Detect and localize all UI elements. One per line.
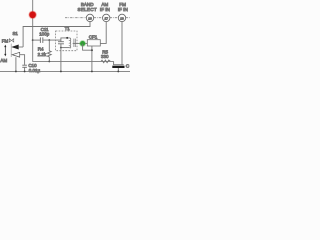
resistor R4 (vertical) (47, 40, 51, 61)
node A (highlighted red test point on rail) (28, 11, 37, 20)
node: T1 top junction (66, 37, 68, 39)
ground rail (0, 70, 130, 72)
capacitor C11 (32, 39, 34, 41)
capacitor C10 (22, 64, 27, 66)
wire: pin16 lead down and across to switch (crosses rail, no junction) (23, 22, 90, 47)
capacitor C (bottom right) (113, 64, 124, 66)
svg-text:0.01µ: 0.01µ (29, 68, 41, 73)
wire: T1 to ground rail (60, 48, 62, 72)
T1 internal bottom wire (61, 47, 70, 49)
wire: green node branch down to CF1 ground pin (83, 44, 92, 51)
IC boundary dash-dot line (65, 17, 130, 19)
T1 core lines (73, 39, 75, 47)
wire: T1 secondary out to CF1 (73, 42, 88, 44)
wire: capacitor C to ground rail (117, 68, 119, 71)
switch S1 FM contact (selected, filled arrow) (11, 45, 18, 50)
pin 16 circle (86, 14, 93, 21)
T1 internal tuning capacitor (58, 41, 64, 43)
svg-text:330: 330 (101, 54, 109, 59)
svg-text:18: 18 (120, 16, 124, 20)
wire: pin 18 lead down to capacitor C (121, 21, 123, 64)
wire: W1 elbow down to capacitor C (113, 61, 115, 64)
pin 17 circle (103, 14, 110, 21)
svg-text:C: C (126, 64, 130, 70)
svg-text:R4: R4 (38, 47, 44, 52)
T1 primary coil (69, 38, 72, 48)
wire: CF1 ground pin to rail (crosses W1) (91, 50, 93, 71)
transformer T1 dashed enclosure (56, 31, 77, 51)
node: junction C11/R4 (48, 39, 50, 41)
svg-text:AM: AM (0, 58, 7, 63)
svg-text:CF1: CF1 (89, 35, 98, 40)
svg-text:17: 17 (104, 16, 108, 20)
svg-text:FM: FM (2, 38, 9, 43)
wire: switch common to ground rail (15, 57, 17, 71)
wire: CF1 output up to pin 17 (100, 22, 106, 44)
svg-text:SELECT: SELECT (78, 7, 97, 12)
switch S1 actuator double arrow (4, 45, 6, 57)
switch S1 bowtie mark (9, 39, 14, 42)
ceramic filter CF1 (87, 40, 100, 46)
svg-text:100p: 100p (39, 32, 50, 37)
svg-text:2.2k: 2.2k (38, 52, 47, 57)
svg-text:16: 16 (88, 16, 92, 20)
switch S1 pole line (10, 44, 12, 57)
T1 internal top wire (61, 38, 70, 42)
svg-text:T1: T1 (65, 26, 71, 31)
switch S1 AM contact (open arrow) (12, 52, 20, 57)
node: junction R4/W1 (48, 60, 50, 62)
node B (highlighted green point) (79, 40, 86, 47)
svg-text:IF IN: IF IN (118, 7, 128, 12)
svg-text:S1: S1 (13, 31, 19, 36)
wire: vertical rail x33 from top edge down to W1 elbow (33, 0, 114, 61)
junction dots on ground rail (15, 70, 119, 72)
svg-text:IF IN: IF IN (100, 7, 110, 12)
pin 18 circle (118, 14, 125, 21)
wire: CF1 bottom pin (91, 46, 93, 50)
resistor R5 (inline in W1) (101, 60, 110, 63)
